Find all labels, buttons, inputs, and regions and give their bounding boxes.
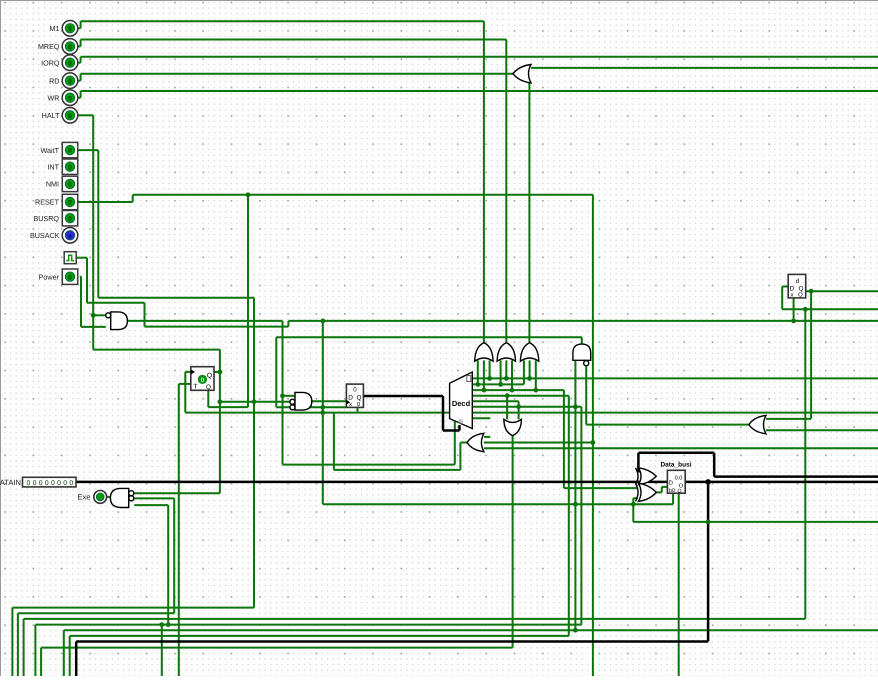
svg-text:0: 0 [68,26,72,33]
svg-text:BUSACK: BUSACK [30,231,60,240]
svg-text:Power: Power [39,272,60,281]
svg-text:0: 0 [68,44,72,51]
svg-text:0.0: 0.0 [675,476,683,482]
svg-text:0: 0 [68,78,72,85]
svg-text:Q: Q [207,373,212,380]
svg-text:0: 0 [68,60,72,67]
svg-text:D: D [669,481,673,487]
svg-text:D: D [789,286,794,293]
svg-text:Data_busi: Data_busi [660,462,691,469]
svg-text:RD: RD [49,76,59,85]
svg-text:b0: b0 [669,488,675,494]
svg-text:WR: WR [48,93,60,102]
svg-text:D: D [348,395,353,402]
svg-text:0: 0 [68,274,72,281]
svg-text:Q: Q [357,395,362,402]
svg-text:x: x [791,293,794,299]
svg-text:HALT: HALT [42,111,60,120]
svg-text:0: 0 [201,377,205,384]
svg-text:RESET: RESET [35,198,60,207]
svg-text:Q: Q [799,286,804,293]
svg-text:NMI: NMI [46,180,59,189]
svg-text:0: 0 [353,387,357,394]
svg-text:x: x [68,233,72,240]
svg-text:x: x [349,402,352,408]
svg-text:d: d [796,278,800,285]
svg-text:IORQ: IORQ [41,58,60,67]
svg-text:INT: INT [47,162,59,171]
svg-text:MREQ: MREQ [38,42,60,51]
svg-text:DATAIN: DATAIN [0,478,21,487]
svg-text:0: 0 [68,95,72,102]
svg-text:0: 0 [68,113,72,120]
svg-text:0: 0 [68,164,72,171]
svg-text:O: O [798,292,803,299]
svg-text:0: 0 [68,148,72,155]
svg-text:T: T [193,384,197,391]
svg-text:0: 0 [68,200,72,207]
svg-text:0: 0 [68,216,72,223]
svg-text:BUSRQ: BUSRQ [33,214,59,223]
svg-text:Q: Q [206,384,211,391]
svg-text:O: O [677,489,681,495]
svg-text:WaitT: WaitT [41,146,60,155]
svg-text:00000000: 00000000 [27,480,76,487]
svg-text:M1: M1 [50,24,60,33]
svg-text:Exe: Exe [77,493,90,502]
svg-text:0: 0 [68,182,72,189]
svg-text:Decd: Decd [452,399,471,408]
